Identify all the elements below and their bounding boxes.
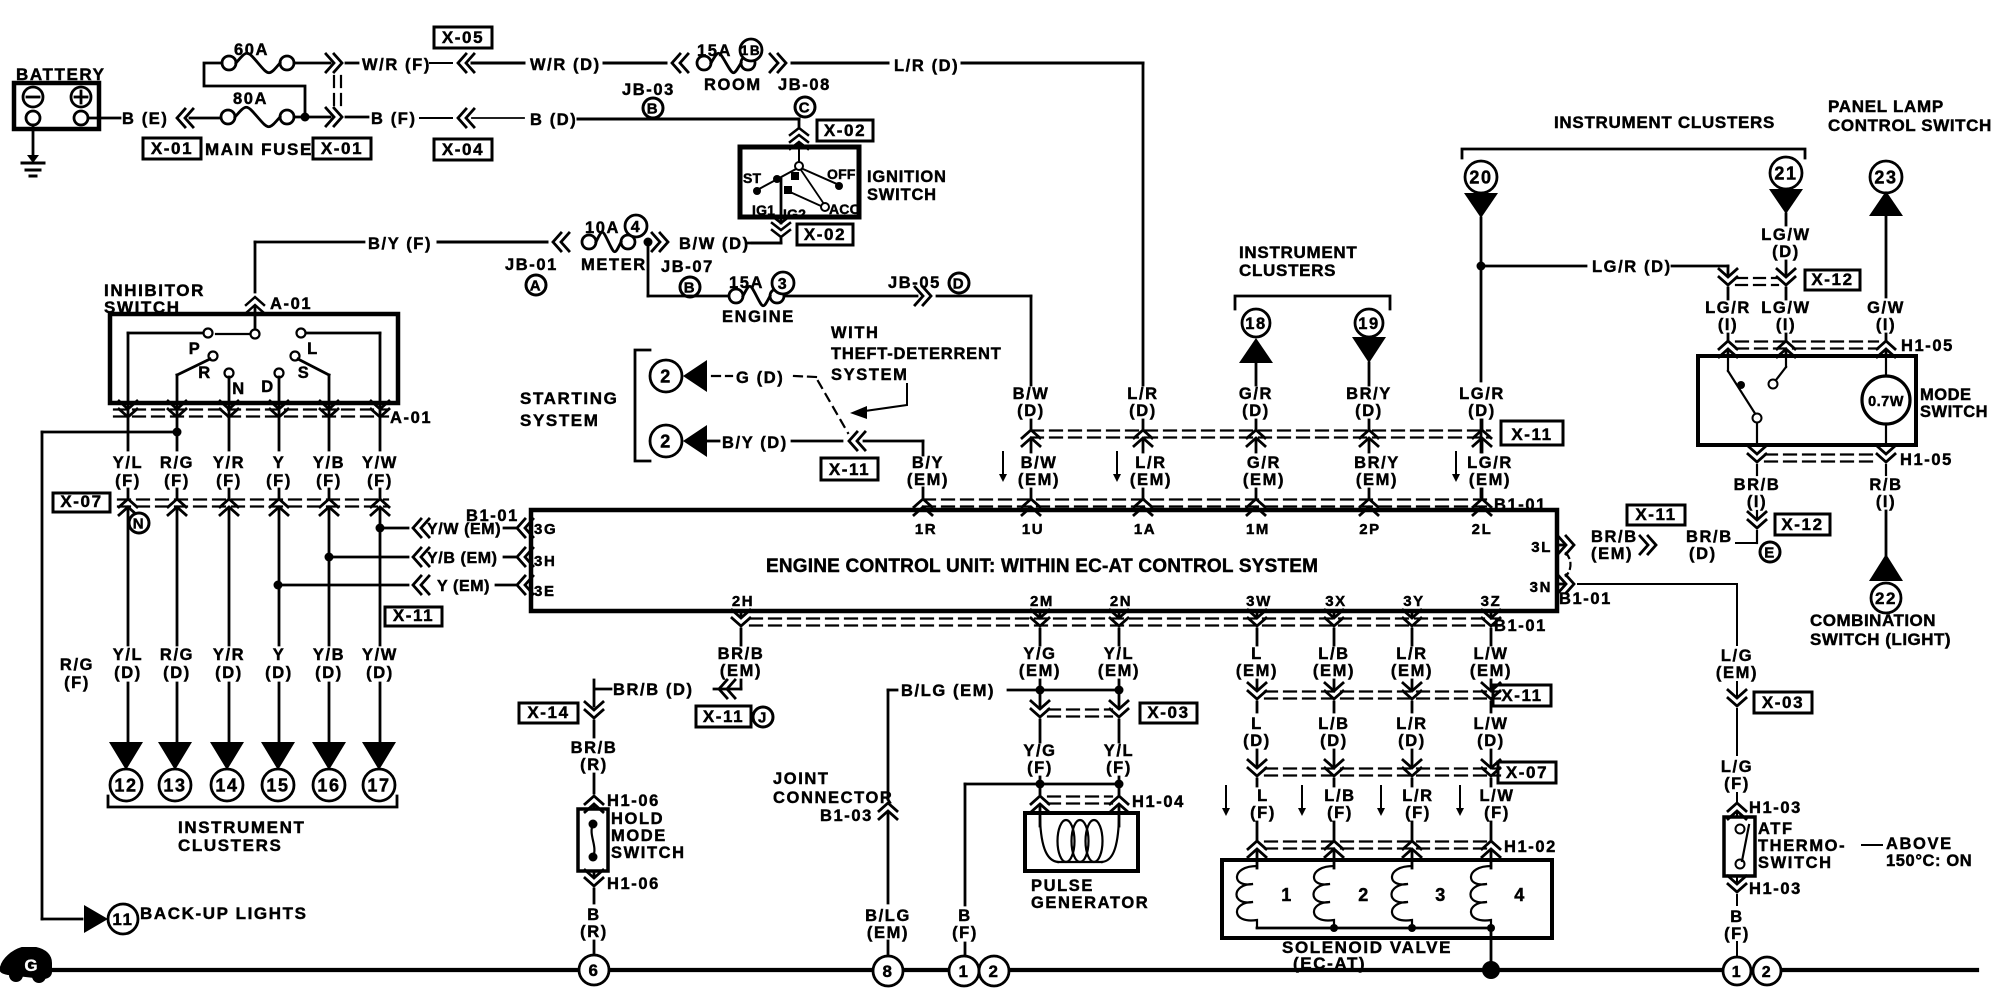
svg-text:12: 12 <box>114 775 137 795</box>
connector X-11 chevron L/R <box>1134 430 1152 438</box>
connector X-07 chevron Y/B <box>320 499 338 507</box>
ground point E <box>1760 542 1780 562</box>
svg-text:BR/Y: BR/Y <box>1354 454 1400 472</box>
grommet C <box>795 97 815 117</box>
svg-text:(D): (D) <box>1468 402 1496 420</box>
svg-text:SWITCH: SWITCH <box>611 844 686 862</box>
connector X-11 solenoid row <box>1265 690 1500 692</box>
wire Y (F) <box>278 403 281 450</box>
svg-text:(D): (D) <box>315 664 343 682</box>
svg-text:L/G: L/G <box>1721 647 1753 665</box>
svg-text:HOLD: HOLD <box>611 810 664 828</box>
svg-text:S: S <box>298 364 311 382</box>
junction R/G to back-up <box>173 428 182 437</box>
inhibitor switch <box>110 314 398 403</box>
wire pin 3X with B1-01 chevron <box>1333 611 1336 616</box>
grommet N <box>129 513 149 533</box>
svg-text:N: N <box>232 380 246 398</box>
X-11 label starting <box>821 458 878 480</box>
svg-text:0.7W: 0.7W <box>1868 394 1904 410</box>
svg-text:(D): (D) <box>366 664 394 682</box>
svg-text:ATF: ATF <box>1758 820 1794 838</box>
contact S <box>291 352 300 361</box>
svg-text:L: L <box>1251 645 1263 663</box>
svg-text:(D): (D) <box>1689 545 1717 563</box>
ground <box>32 125 35 158</box>
connector 21 <box>1770 157 1802 189</box>
svg-text:B: B <box>1730 908 1744 926</box>
bus connector 2 left <box>979 956 1009 986</box>
svg-text:WITH: WITH <box>831 324 880 342</box>
wire B/LG (EM) <box>888 689 897 692</box>
svg-text:(F): (F) <box>1106 759 1132 777</box>
chevron BR/B D hold <box>719 680 727 698</box>
svg-text:PULSE: PULSE <box>1031 877 1094 895</box>
svg-text:X-02: X-02 <box>824 121 866 140</box>
svg-text:(F): (F) <box>1724 925 1750 943</box>
connector H1-05 top <box>1736 340 1878 342</box>
svg-text:L/W: L/W <box>1479 787 1514 805</box>
connector A-01 chevron Y/R <box>220 401 238 409</box>
svg-text:X-03: X-03 <box>1762 693 1804 712</box>
svg-text:THEFT-DETERRENT: THEFT-DETERRENT <box>831 345 1002 363</box>
svg-text:L/R (D): L/R (D) <box>894 57 959 75</box>
wire B/LG junction <box>1008 689 1119 692</box>
svg-text:(D): (D) <box>1242 402 1270 420</box>
svg-text:(D): (D) <box>1320 732 1348 750</box>
wire W/R (F) <box>346 62 358 65</box>
svg-text:BR/B: BR/B <box>1734 476 1781 494</box>
connector A-01 chevron R/G <box>168 401 186 409</box>
wire Y/W (D) <box>379 510 382 645</box>
svg-text:H1-06: H1-06 <box>607 792 660 810</box>
svg-text:J: J <box>758 709 768 726</box>
svg-text:R/G: R/G <box>160 454 194 472</box>
connector A-01 chevron Y/W <box>371 401 389 409</box>
connector X-12 chevrons <box>1736 277 1778 279</box>
svg-text:Y/W: Y/W <box>362 646 398 664</box>
svg-text:2: 2 <box>988 962 999 981</box>
svg-text:ENGINE: ENGINE <box>722 308 795 326</box>
connector A-01 chevron Y/B <box>320 401 338 409</box>
connector chevron JB-05 <box>915 287 923 305</box>
connector 18 <box>1242 309 1270 337</box>
svg-text:L: L <box>1257 787 1269 805</box>
contact L <box>297 329 306 338</box>
wire W/R (D) <box>472 62 524 65</box>
svg-text:STARTING: STARTING <box>520 389 618 408</box>
svg-text:1: 1 <box>1281 885 1293 905</box>
svg-text:BR/B: BR/B <box>571 739 618 757</box>
svg-text:3N: 3N <box>1530 579 1552 596</box>
wire B/Y to inhibitor <box>254 242 257 292</box>
svg-text:3E: 3E <box>534 583 556 600</box>
instrument cluster arrow 14 <box>210 742 244 770</box>
wire BR/Y (EM) <box>1368 441 1371 452</box>
svg-text:X-07: X-07 <box>1506 763 1548 782</box>
svg-text:1B: 1B <box>741 43 761 58</box>
BR/B (I) label <box>1756 465 1758 475</box>
connector H1-03 top <box>1728 803 1746 811</box>
contact D <box>275 369 284 378</box>
svg-text:(D): (D) <box>1129 402 1157 420</box>
svg-text:(R): (R) <box>580 756 608 774</box>
ATF note <box>1862 844 1882 846</box>
wire L/R (D) stub <box>1142 420 1145 428</box>
svg-text:Y/L: Y/L <box>1104 645 1134 663</box>
svg-text:(D): (D) <box>114 664 142 682</box>
grommet A <box>526 275 546 295</box>
svg-text:SYSTEM: SYSTEM <box>831 366 908 384</box>
svg-text:R/B: R/B <box>1869 476 1902 494</box>
svg-text:(EM): (EM) <box>1098 662 1140 680</box>
svg-text:B: B <box>684 279 696 296</box>
svg-text:LG/R: LG/R <box>1467 454 1513 472</box>
svg-text:G (D): G (D) <box>736 369 784 387</box>
wire B (F) <box>346 116 368 119</box>
labels (I) row <box>1727 288 1730 299</box>
connector 20 <box>1465 161 1497 193</box>
svg-text:13: 13 <box>163 775 186 795</box>
svg-text:(I): (I) <box>1876 493 1896 511</box>
solenoid common wire <box>1257 927 1491 930</box>
svg-text:L/R: L/R <box>1127 385 1158 403</box>
svg-text:INSTRUMENT CLUSTERS: INSTRUMENT CLUSTERS <box>1554 113 1775 132</box>
svg-text:(F): (F) <box>266 472 292 490</box>
X-14 connector <box>519 703 578 723</box>
connector chevron X-04 <box>458 109 466 127</box>
connector chevron B out <box>326 108 334 126</box>
svg-text:B/W: B/W <box>1021 454 1058 472</box>
svg-text:B1-01: B1-01 <box>1494 617 1547 635</box>
svg-text:B/Y (F): B/Y (F) <box>368 235 432 253</box>
svg-text:2H: 2H <box>732 593 754 610</box>
connector chevron JB-03 <box>672 54 680 72</box>
arrows EM <box>1002 452 1004 479</box>
connector circle 15 <box>262 769 294 801</box>
connector dashes X-01 out <box>333 76 335 107</box>
svg-text:X-04: X-04 <box>442 140 484 159</box>
connector H1-03 bottom <box>1736 876 1738 882</box>
X-11 label 3L <box>1627 505 1685 525</box>
svg-text:L/R: L/R <box>1396 715 1427 733</box>
svg-text:(R): (R) <box>580 923 608 941</box>
svg-text:MODE: MODE <box>1920 386 1972 404</box>
svg-text:(D): (D) <box>1398 732 1426 750</box>
ignition output wire <box>780 179 783 217</box>
chevron BR/B D <box>1640 536 1648 554</box>
svg-text:(F): (F) <box>64 674 90 692</box>
svg-text:4: 4 <box>1514 885 1526 905</box>
svg-text:LG/R: LG/R <box>1705 299 1751 317</box>
svg-text:150°C: ON: 150°C: ON <box>1886 852 1972 870</box>
svg-text:L/W: L/W <box>1473 715 1508 733</box>
svg-text:R/G: R/G <box>60 656 94 674</box>
X-05 label <box>434 27 492 48</box>
svg-text:R/G: R/G <box>160 646 194 664</box>
svg-text:2P: 2P <box>1359 521 1381 538</box>
wire R/G (D) lower <box>176 683 179 744</box>
svg-text:X-11: X-11 <box>1511 425 1552 444</box>
svg-text:(I): (I) <box>1747 493 1767 511</box>
connector B1-01 chevron pin 2P <box>1360 499 1378 507</box>
connector chevron X-05 <box>458 54 466 72</box>
bus connector 8 <box>873 956 903 986</box>
connector B1-03 chevron <box>879 803 897 811</box>
svg-text:ACC: ACC <box>829 201 860 217</box>
svg-text:(EM): (EM) <box>1243 471 1285 489</box>
svg-text:Y/B (EM): Y/B (EM) <box>427 550 498 567</box>
wire R/G (D) <box>176 510 179 645</box>
wire R/G (F) <box>176 403 179 450</box>
svg-text:BR/B: BR/B <box>718 645 765 663</box>
instrument cluster arrow 16 <box>312 742 346 770</box>
connector 19 <box>1355 309 1383 337</box>
svg-text:B1-01: B1-01 <box>1559 590 1612 608</box>
connector X-07 solenoid row <box>1265 767 1500 769</box>
svg-text:(EM): (EM) <box>720 662 762 680</box>
connector A-01 top chevron <box>246 297 264 305</box>
svg-text:15: 15 <box>266 775 289 795</box>
bus connector 1 left <box>949 956 979 986</box>
svg-text:3X: 3X <box>1325 593 1347 610</box>
connector X-03 pulse <box>1048 708 1112 710</box>
theft arrow <box>858 384 907 412</box>
svg-text:(D): (D) <box>265 664 293 682</box>
wire Y/R (F) <box>228 403 231 450</box>
svg-text:(D): (D) <box>1355 402 1383 420</box>
svg-text:SWITCH: SWITCH <box>867 186 937 204</box>
ECU engine control unit <box>531 510 1557 611</box>
X-01 label right <box>313 138 371 159</box>
connector circle 12 <box>110 769 142 801</box>
svg-text:L/B: L/B <box>1318 645 1349 663</box>
svg-text:Y/G: Y/G <box>1023 742 1056 760</box>
connector 23 <box>1870 161 1902 193</box>
svg-text:L/R: L/R <box>1396 645 1427 663</box>
instrument cluster arrow 13 <box>158 742 192 770</box>
svg-text:JB-01: JB-01 <box>505 256 558 274</box>
instrument cluster arrow 17 <box>362 742 396 770</box>
connector X-07 chevron Y/W <box>371 499 389 507</box>
chevron 3H <box>517 548 525 566</box>
wire LG/R (D) stub <box>1481 420 1484 428</box>
svg-text:ROOM: ROOM <box>704 76 762 94</box>
svg-text:X-11: X-11 <box>829 460 870 479</box>
svg-text:Y (EM): Y (EM) <box>437 578 490 595</box>
chevron 3G <box>517 519 525 537</box>
wire B/W (EM) <box>1030 441 1033 452</box>
connector circle 16 <box>313 769 345 801</box>
svg-text:OFF: OFF <box>827 166 856 182</box>
svg-text:B (E): B (E) <box>122 110 169 128</box>
wire engine to JB-05 <box>784 295 917 298</box>
svg-text:CLUSTERS: CLUSTERS <box>178 836 282 855</box>
wire to 80A fuse <box>190 117 221 120</box>
svg-text:X-01: X-01 <box>151 139 193 158</box>
svg-text:80A: 80A <box>233 90 268 108</box>
fuse number 3 <box>772 272 794 294</box>
svg-text:16: 16 <box>317 775 340 795</box>
svg-text:(F): (F) <box>115 472 141 490</box>
connector X-07 chevron R/G <box>168 499 186 507</box>
svg-text:JB-03: JB-03 <box>622 81 675 99</box>
svg-text:2: 2 <box>660 431 672 451</box>
svg-text:L/R: L/R <box>1135 454 1166 472</box>
R/B (I) label <box>1885 465 1887 475</box>
svg-text:G/R: G/R <box>1239 385 1273 403</box>
svg-text:LG/W: LG/W <box>1761 299 1810 317</box>
wire pin 3Y with B1-01 chevron <box>1411 611 1414 616</box>
svg-text:(EM): (EM) <box>1716 664 1758 682</box>
svg-text:1M: 1M <box>1246 521 1270 538</box>
svg-text:B (D): B (D) <box>530 111 577 129</box>
svg-text:A-01: A-01 <box>270 295 312 313</box>
svg-text:R: R <box>198 364 212 382</box>
svg-text:(F): (F) <box>164 472 190 490</box>
svg-text:L/B: L/B <box>1324 787 1355 805</box>
connector X-07 row dashes <box>118 498 388 500</box>
svg-text:L/G: L/G <box>1721 758 1753 776</box>
connector B1-01 chevron pin 1A <box>1134 499 1152 507</box>
wires 2M 2N down <box>1039 611 1042 616</box>
grommet D <box>949 273 969 293</box>
svg-text:(EM): (EM) <box>1019 662 1061 680</box>
svg-text:X-07: X-07 <box>60 492 102 511</box>
svg-text:METER: METER <box>581 256 647 274</box>
svg-text:ENGINE CONTROL UNIT: WITHIN EC: ENGINE CONTROL UNIT: WITHIN EC-AT CONTRO… <box>766 556 1318 577</box>
svg-text:3H: 3H <box>534 553 556 570</box>
X-04 label <box>434 139 492 160</box>
svg-text:X-11: X-11 <box>1501 686 1542 705</box>
svg-text:ABOVE: ABOVE <box>1886 835 1953 853</box>
svg-text:(EM): (EM) <box>1356 471 1398 489</box>
connector 22 <box>1869 554 1903 581</box>
svg-text:B/LG (EM): B/LG (EM) <box>901 682 995 700</box>
body ground G <box>0 948 51 978</box>
connector B1-01 chevron pin 1R <box>914 499 932 507</box>
svg-text:SWITCH: SWITCH <box>1758 854 1833 872</box>
svg-text:Y/G: Y/G <box>1023 645 1056 663</box>
connector H1-06 bottom <box>593 871 596 876</box>
svg-text:3: 3 <box>1435 885 1447 905</box>
junction 10A out <box>644 238 653 247</box>
svg-text:G/R: G/R <box>1247 454 1281 472</box>
svg-text:BR/Y: BR/Y <box>1346 385 1392 403</box>
connector X-11 chevron LG/R <box>1473 430 1491 438</box>
wire Y/L (D) lower <box>127 683 130 744</box>
svg-text:X-12: X-12 <box>1811 270 1853 289</box>
svg-text:COMBINATION: COMBINATION <box>1810 611 1936 630</box>
svg-text:LG/R (D): LG/R (D) <box>1592 258 1672 276</box>
svg-text:X-11: X-11 <box>393 606 434 625</box>
svg-text:PANEL LAMP: PANEL LAMP <box>1828 97 1944 116</box>
svg-text:Y/W: Y/W <box>362 454 398 472</box>
svg-text:CLUSTERS: CLUSTERS <box>1239 261 1336 280</box>
svg-text:SWITCH: SWITCH <box>1920 403 1988 421</box>
connector B1-01 top dashes <box>923 498 1490 500</box>
svg-text:1: 1 <box>958 962 969 981</box>
svg-text:G: G <box>24 956 37 975</box>
grommet B <box>643 98 663 118</box>
wire B/Y (D) <box>707 440 719 443</box>
wire Y/W (F) <box>379 403 382 450</box>
svg-text:18: 18 <box>1245 315 1267 333</box>
connector A-01 chevron Y <box>270 401 288 409</box>
connector B1-01 chevron pin 1M <box>1247 499 1265 507</box>
svg-text:C: C <box>799 99 811 116</box>
connector X-11 chevron BR/Y <box>1360 430 1378 438</box>
svg-text:X-02: X-02 <box>804 225 846 244</box>
svg-text:L/R: L/R <box>1402 787 1433 805</box>
svg-text:(EM): (EM) <box>1018 471 1060 489</box>
wire to combination switch <box>1885 511 1888 556</box>
connector A-01 chevron Y/L <box>119 401 137 409</box>
svg-text:11: 11 <box>112 910 133 929</box>
junction main fuse <box>294 116 330 119</box>
svg-text:L: L <box>307 340 319 358</box>
svg-text:4: 4 <box>631 219 642 236</box>
svg-text:IGNITION: IGNITION <box>867 168 947 186</box>
instrument cluster arrow 12 <box>109 742 143 770</box>
wire B (F) left <box>964 784 967 905</box>
bus connector 6 <box>579 955 609 985</box>
connector B1-01 chevron pin 2L <box>1473 499 1491 507</box>
svg-text:(EM): (EM) <box>1313 662 1355 680</box>
connector X-07 chevron Y <box>270 499 288 507</box>
svg-text:X-11: X-11 <box>1635 505 1676 524</box>
X-11 label row <box>1501 421 1563 445</box>
connector chevron JB-01 <box>553 233 561 251</box>
svg-text:JB-05: JB-05 <box>888 274 941 292</box>
svg-text:(D): (D) <box>163 664 191 682</box>
svg-text:(F): (F) <box>1724 775 1750 793</box>
svg-text:L/W: L/W <box>1473 645 1508 663</box>
wire to engine fuse <box>647 242 650 296</box>
svg-text:(EM): (EM) <box>1469 471 1511 489</box>
instrument clusters bracket <box>108 796 397 807</box>
X-11 label left <box>385 607 442 626</box>
svg-text:1A: 1A <box>1134 521 1156 538</box>
svg-text:(I): (I) <box>1776 316 1796 334</box>
connector X-03 right <box>1728 690 1746 698</box>
svg-text:B (F): B (F) <box>371 110 417 128</box>
wire L/R (D) <box>792 62 888 65</box>
svg-text:B: B <box>587 906 601 924</box>
svg-text:B: B <box>958 907 972 925</box>
svg-text:3Z: 3Z <box>1481 593 1502 610</box>
hold mode switch <box>578 809 608 871</box>
svg-text:H1-04: H1-04 <box>1132 793 1185 811</box>
svg-text:3: 3 <box>778 276 789 293</box>
connector chevron JB-08 <box>770 54 778 72</box>
dashed wire G (D) <box>712 375 732 377</box>
svg-text:(D): (D) <box>1772 243 1800 261</box>
svg-text:B/LG: B/LG <box>865 907 911 925</box>
X-01 label left <box>143 138 201 159</box>
connector X-11 chevron G/R <box>1247 430 1265 438</box>
svg-text:(F): (F) <box>1250 804 1276 822</box>
connector circle 17 <box>363 769 395 801</box>
svg-text:B/Y (D): B/Y (D) <box>722 434 788 452</box>
svg-text:(I): (I) <box>1718 316 1738 334</box>
svg-text:MAIN FUSE: MAIN FUSE <box>205 140 313 159</box>
wire B/Y (EM) <box>864 440 923 443</box>
svg-text:D: D <box>261 378 275 396</box>
connector X-11 chevron B/W <box>1022 430 1040 438</box>
svg-text:2: 2 <box>660 366 672 386</box>
contact R <box>209 352 218 361</box>
